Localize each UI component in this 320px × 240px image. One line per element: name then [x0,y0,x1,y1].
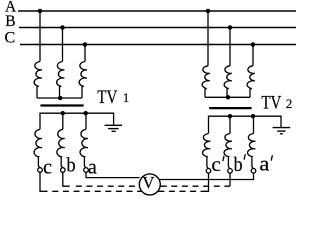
wire dashed c to c' [52,190,200,192]
svg-text:V: V [142,173,155,192]
wire terminal b' to bottom [229,173,231,186]
winding TV2 primary phase B [224,66,232,98]
wire TV2 phase B drop [229,28,231,66]
svg-text:a: a [88,156,97,178]
svg-text:C: C [5,30,16,47]
node bus C / TV1 junction [83,43,86,46]
svg-text:c: c [43,157,52,179]
wire TV2 secondary b' lead [229,116,231,133]
wire TV2 phase A drop [207,11,209,66]
wire TV1 primary common [37,97,82,99]
wire dashed b to b' [76,185,230,187]
terminal b [61,168,66,173]
winding TV1 secondary b [57,129,65,167]
winding TV1 secondary c [34,129,42,167]
node TV2 secondary common b' [228,115,231,118]
wire TV1 secondary a lead [85,113,87,129]
wire TV2 primary common [205,96,250,98]
prime mark b' [244,154,245,159]
svg-text:b: b [234,154,243,176]
svg-text:b: b [66,155,75,176]
wire TV2 secondary a' lead [253,116,255,133]
wire terminal c to bottom [40,172,48,191]
node TV1 secondary common b [61,112,64,115]
svg-text:TV: TV [261,93,281,114]
wire TV1 phase C drop [84,45,86,62]
winding TV2 secondary c' [203,134,211,169]
svg-text:B: B [5,13,15,30]
node TV2 secondary common a' [251,115,254,118]
node bus A / TV1 junction [38,9,41,12]
node TV1 secondary common a [84,112,87,115]
wire TV2 phase C drop [252,45,254,66]
winding TV1 primary phase B [57,62,65,99]
wire TV1 phase A drop [39,11,41,62]
svg-text:c: c [211,154,221,176]
prime mark a' [271,155,272,160]
core TV2 [209,107,251,109]
winding TV2 secondary a' [248,134,256,169]
winding TV1 primary phase A [34,62,42,99]
terminal a' [251,169,256,174]
winding TV1 primary phase C [79,62,87,99]
wire TV1 secondary common [40,113,114,129]
wire terminal c' to bottom [201,173,209,191]
ground TV1 [105,125,123,131]
core TV1 [41,104,84,106]
bus A [18,10,296,12]
wire terminal a to voltmeter [86,172,140,177]
node TV1 primary star point [59,96,62,99]
node TV2 primary star point [226,96,229,99]
terminal c' [206,169,211,174]
wire TV2 secondary common [209,116,282,133]
terminal c [38,168,43,173]
node bus C / TV2 junction [251,43,254,46]
wire voltmeter to terminal a' [160,173,254,179]
terminal a [84,168,89,173]
winding TV2 primary phase C [247,66,255,98]
wire TV1 secondary b lead [62,113,64,129]
winding TV2 primary phase A [202,66,210,98]
node bus B / TV1 junction [61,26,64,29]
svg-text:TV: TV [97,87,117,108]
terminal b' [228,169,233,174]
wire TV1 phase B drop [62,28,64,62]
bus B [19,27,296,29]
node bus B / TV2 junction [228,26,231,29]
svg-text:1: 1 [123,90,130,105]
voltmeter V [139,174,160,195]
winding TV1 secondary a [80,129,88,167]
bus C [20,44,296,46]
wire terminal b to bottom [63,172,70,186]
winding TV2 secondary b' [224,134,232,169]
prime mark c' [223,156,224,161]
node bus A / TV2 junction [206,9,209,12]
svg-text:2: 2 [286,96,293,111]
ground TV2 [273,128,291,134]
svg-text:a: a [259,154,269,176]
